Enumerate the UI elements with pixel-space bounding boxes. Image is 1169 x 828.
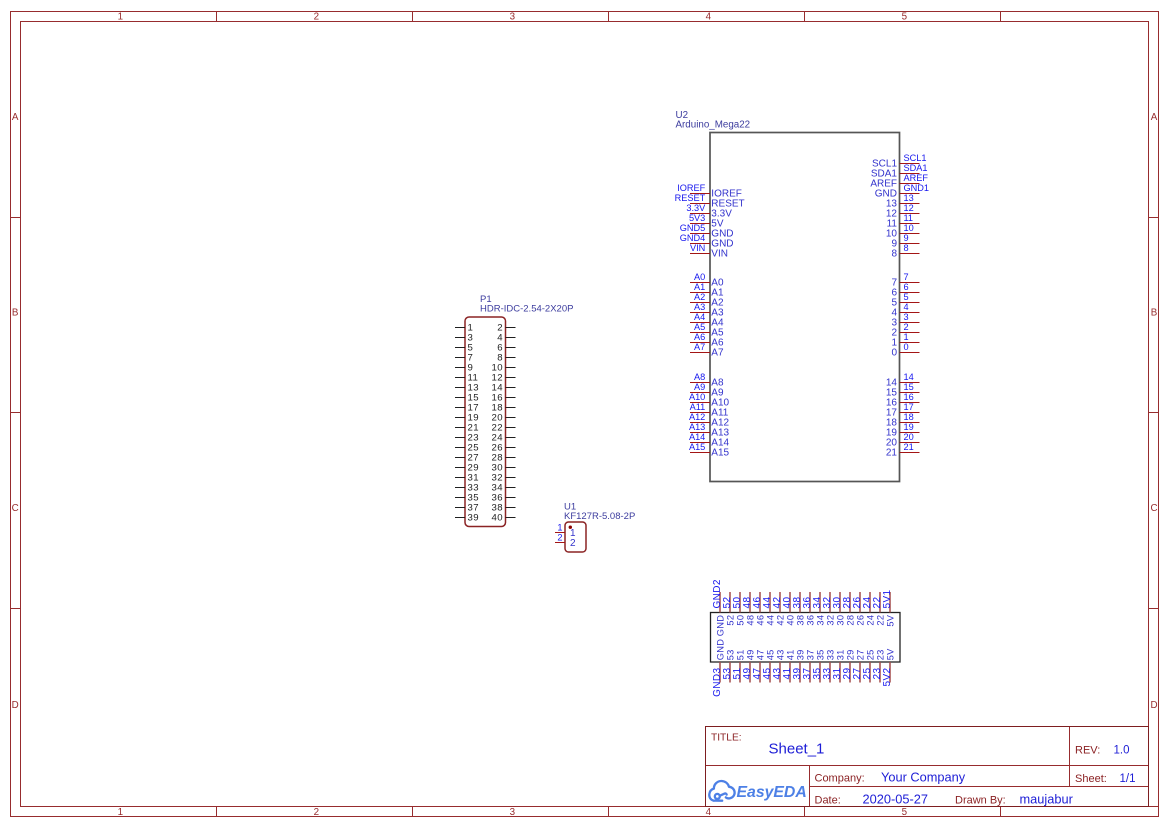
svg-text:40: 40 xyxy=(786,615,796,626)
svg-text:B: B xyxy=(12,307,19,318)
svg-text:5: 5 xyxy=(904,292,909,302)
svg-text:8: 8 xyxy=(904,243,909,253)
svg-text:1/1: 1/1 xyxy=(1120,773,1136,785)
svg-text:12: 12 xyxy=(904,203,914,213)
svg-text:21: 21 xyxy=(904,442,914,452)
svg-text:8: 8 xyxy=(891,249,897,260)
svg-text:31: 31 xyxy=(836,649,846,660)
svg-text:A15: A15 xyxy=(689,442,705,452)
svg-text:SCL1: SCL1 xyxy=(904,153,927,163)
svg-text:A2: A2 xyxy=(694,292,705,302)
svg-text:13: 13 xyxy=(904,193,914,203)
svg-text:32: 32 xyxy=(826,615,836,626)
svg-text:52: 52 xyxy=(726,615,736,626)
svg-text:A12: A12 xyxy=(689,412,705,422)
svg-text:GND: GND xyxy=(716,639,726,661)
svg-text:A4: A4 xyxy=(694,312,705,322)
svg-text:A15: A15 xyxy=(711,448,729,459)
svg-text:50: 50 xyxy=(736,615,746,626)
svg-text:C: C xyxy=(1150,503,1157,514)
svg-text:44: 44 xyxy=(766,615,776,626)
svg-text:KF127R-5.08-2P: KF127R-5.08-2P xyxy=(564,511,635,522)
svg-text:A9: A9 xyxy=(694,382,705,392)
svg-text:25: 25 xyxy=(866,649,876,660)
svg-text:AREF: AREF xyxy=(904,173,929,183)
svg-text:A3: A3 xyxy=(694,302,705,312)
svg-text:29: 29 xyxy=(846,649,856,660)
svg-text:A1: A1 xyxy=(694,282,705,292)
svg-text:C: C xyxy=(12,503,19,514)
svg-text:46: 46 xyxy=(756,615,766,626)
svg-text:A7: A7 xyxy=(711,348,724,359)
svg-text:5V1: 5V1 xyxy=(882,589,893,608)
svg-text:5V2: 5V2 xyxy=(882,667,893,686)
svg-text:3: 3 xyxy=(904,312,909,322)
svg-text:4: 4 xyxy=(706,807,712,818)
svg-text:1.0: 1.0 xyxy=(1114,745,1130,757)
svg-text:22: 22 xyxy=(876,615,886,626)
svg-text:9: 9 xyxy=(904,233,909,243)
svg-text:11: 11 xyxy=(904,213,914,223)
svg-text:26: 26 xyxy=(856,615,866,626)
svg-text:1: 1 xyxy=(904,332,909,342)
svg-text:HDR-IDC-2.54-2X20P: HDR-IDC-2.54-2X20P xyxy=(480,304,573,315)
svg-text:37: 37 xyxy=(806,649,816,660)
svg-text:maujabur: maujabur xyxy=(1020,792,1074,807)
svg-text:RESET: RESET xyxy=(675,193,706,203)
svg-text:A13: A13 xyxy=(689,422,705,432)
svg-text:35: 35 xyxy=(816,649,826,660)
svg-text:A14: A14 xyxy=(689,432,705,442)
svg-text:5V3: 5V3 xyxy=(689,213,705,223)
svg-text:30: 30 xyxy=(836,615,846,626)
svg-text:A: A xyxy=(1151,112,1158,123)
svg-text:7: 7 xyxy=(904,272,909,282)
svg-text:A10: A10 xyxy=(689,392,705,402)
svg-text:5V: 5V xyxy=(886,614,896,626)
svg-text:2: 2 xyxy=(570,538,576,549)
svg-text:43: 43 xyxy=(776,649,786,660)
svg-text:A: A xyxy=(12,112,19,123)
svg-text:A6: A6 xyxy=(694,332,705,342)
svg-text:18: 18 xyxy=(904,412,914,422)
svg-text:42: 42 xyxy=(776,615,786,626)
svg-text:19: 19 xyxy=(904,422,914,432)
svg-text:A0: A0 xyxy=(694,272,705,282)
svg-text:5: 5 xyxy=(902,12,908,23)
svg-text:Drawn By:: Drawn By: xyxy=(955,795,1006,807)
svg-text:4: 4 xyxy=(904,302,909,312)
svg-text:47: 47 xyxy=(756,649,766,660)
svg-text:14: 14 xyxy=(904,372,914,382)
svg-text:EasyEDA: EasyEDA xyxy=(737,784,807,801)
svg-text:Arduino_Mega22: Arduino_Mega22 xyxy=(676,120,751,131)
svg-text:24: 24 xyxy=(866,615,876,626)
svg-text:Company:: Company: xyxy=(815,773,865,785)
svg-text:51: 51 xyxy=(736,649,746,660)
svg-text:GND1: GND1 xyxy=(904,183,930,193)
svg-text:VIN: VIN xyxy=(690,243,705,253)
svg-text:B: B xyxy=(1151,307,1158,318)
svg-text:27: 27 xyxy=(856,649,866,660)
svg-text:1: 1 xyxy=(118,12,123,23)
svg-text:TITLE:: TITLE: xyxy=(711,733,742,744)
svg-text:39: 39 xyxy=(796,649,806,660)
svg-text:15: 15 xyxy=(904,382,914,392)
svg-text:3: 3 xyxy=(510,807,516,818)
svg-text:17: 17 xyxy=(904,402,914,412)
svg-text:GND5: GND5 xyxy=(680,223,706,233)
svg-text:4: 4 xyxy=(706,12,712,23)
svg-text:Date:: Date: xyxy=(815,795,841,807)
svg-text:28: 28 xyxy=(846,615,856,626)
svg-text:5V: 5V xyxy=(886,648,896,660)
svg-text:5: 5 xyxy=(902,807,908,818)
svg-text:REV:: REV: xyxy=(1075,745,1100,757)
svg-text:VIN: VIN xyxy=(711,249,728,260)
svg-text:20: 20 xyxy=(904,432,914,442)
svg-text:1: 1 xyxy=(118,807,123,818)
svg-text:2: 2 xyxy=(314,807,319,818)
svg-text:33: 33 xyxy=(826,649,836,660)
svg-text:3.3V: 3.3V xyxy=(686,203,706,213)
svg-text:39: 39 xyxy=(468,513,479,524)
svg-text:1: 1 xyxy=(557,523,562,533)
svg-text:41: 41 xyxy=(786,649,796,660)
svg-text:3: 3 xyxy=(510,12,516,23)
svg-text:0: 0 xyxy=(891,348,897,359)
svg-text:GND4: GND4 xyxy=(680,233,706,243)
svg-text:Sheet:: Sheet: xyxy=(1075,773,1107,785)
svg-text:A7: A7 xyxy=(694,342,705,352)
svg-text:21: 21 xyxy=(886,448,898,459)
svg-text:10: 10 xyxy=(904,223,914,233)
svg-text:0: 0 xyxy=(904,342,909,352)
svg-text:D: D xyxy=(12,700,19,711)
svg-text:A5: A5 xyxy=(694,322,705,332)
svg-text:16: 16 xyxy=(904,392,914,402)
svg-text:6: 6 xyxy=(904,282,909,292)
svg-text:D: D xyxy=(1150,700,1157,711)
svg-text:SDA1: SDA1 xyxy=(904,163,928,173)
svg-text:36: 36 xyxy=(806,615,816,626)
svg-text:34: 34 xyxy=(816,615,826,626)
svg-text:GND: GND xyxy=(716,615,726,637)
svg-text:Sheet_1: Sheet_1 xyxy=(769,741,825,758)
svg-text:IOREF: IOREF xyxy=(677,183,705,193)
svg-text:48: 48 xyxy=(746,615,756,626)
svg-text:Your Company: Your Company xyxy=(881,770,966,785)
svg-text:40: 40 xyxy=(492,513,503,524)
svg-text:A8: A8 xyxy=(694,372,705,382)
svg-text:45: 45 xyxy=(766,649,776,660)
svg-text:2: 2 xyxy=(557,533,562,543)
svg-text:2020-05-27: 2020-05-27 xyxy=(863,792,928,807)
svg-text:49: 49 xyxy=(746,649,756,660)
svg-text:2: 2 xyxy=(904,322,909,332)
svg-text:38: 38 xyxy=(796,615,806,626)
svg-text:53: 53 xyxy=(726,649,736,660)
svg-text:2: 2 xyxy=(314,12,319,23)
svg-text:23: 23 xyxy=(876,649,886,660)
svg-text:A11: A11 xyxy=(690,402,706,412)
